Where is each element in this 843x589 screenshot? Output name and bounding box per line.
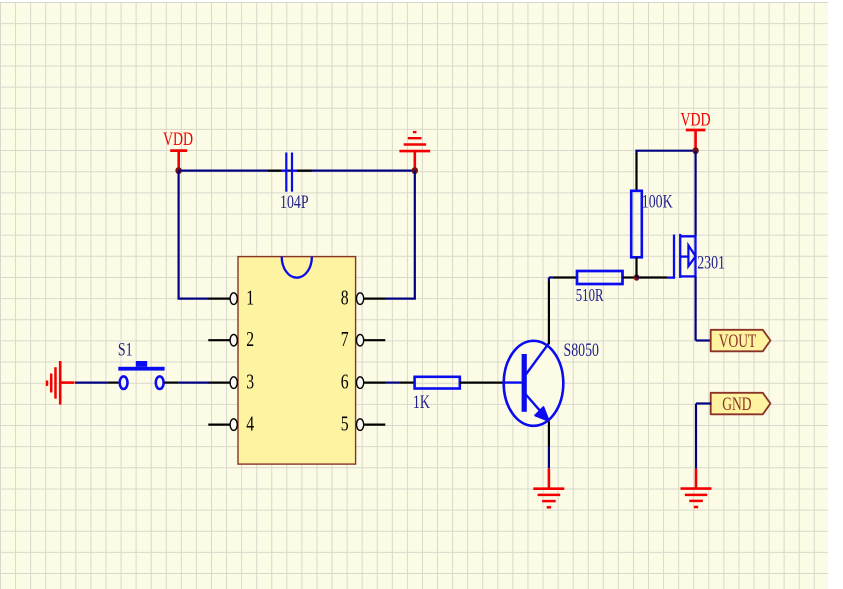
transistor Q1 S8050 (504, 341, 564, 426)
ground (earth, left of S1) (47, 361, 75, 405)
svg-text:VOUT: VOUT (719, 331, 757, 352)
pin number 3 (246, 370, 254, 394)
port GND (711, 393, 771, 415)
pin 1 (208, 293, 237, 305)
svg-text:GND: GND (722, 394, 752, 415)
port VOUT (711, 330, 771, 352)
capacitor C1 104P (268, 153, 312, 192)
power port VDD (right) (680, 108, 710, 150)
power ground (earth, top right) (399, 132, 430, 171)
wire (VDD to 100K) (635, 150, 695, 152)
wire (collector to R 510R) (549, 278, 577, 345)
svg-text:104P: 104P (280, 191, 309, 213)
IC U1 body (238, 257, 356, 465)
svg-text:S8050: S8050 (564, 339, 599, 361)
resistor 1K (415, 377, 504, 389)
svg-text:4: 4 (246, 412, 254, 436)
svg-text:5: 5 (341, 412, 349, 436)
value label 510R (576, 286, 604, 305)
wire (emitter to ground) (548, 422, 550, 469)
wire (GND flag to ground) (696, 404, 712, 469)
svg-text:1K: 1K (413, 391, 430, 413)
designator 2301 (697, 251, 725, 273)
svg-text:7: 7 (341, 328, 349, 352)
wire (pin 6 to R 1K) (385, 382, 415, 384)
value label 104P (280, 191, 309, 213)
wire (source to VOUT) (696, 276, 712, 340)
svg-text:510R: 510R (576, 286, 604, 305)
pin 2 (208, 334, 237, 346)
pin 5 (357, 419, 386, 431)
wire (drain) (694, 151, 696, 237)
resistor 100K (631, 151, 642, 278)
wire (right vertical to pin 8) (385, 171, 416, 299)
pin number 1 (246, 286, 254, 310)
svg-text:VDD: VDD (680, 108, 710, 130)
value label 100K (642, 190, 673, 212)
svg-text:6: 6 (341, 370, 349, 394)
junction dot (VDD right) (692, 147, 698, 154)
svg-text:2: 2 (246, 328, 254, 352)
pin number 8 (341, 286, 349, 310)
wire (ground to S1) (75, 382, 107, 384)
pin number 7 (341, 328, 349, 352)
svg-text:S1: S1 (118, 338, 133, 360)
wire (gate node to Q2) (637, 276, 667, 278)
power port VDD (left) (163, 128, 193, 171)
wire (VDD to earth, top) (179, 170, 415, 172)
junction dot (earth top) (412, 167, 418, 174)
pin number 5 (341, 412, 349, 436)
pin number 4 (246, 412, 254, 436)
wire (S1 to pin 3) (178, 382, 208, 384)
svg-text:2301: 2301 (697, 251, 725, 273)
pin 8 (357, 293, 386, 305)
ground (earth, below Q1) (533, 469, 564, 508)
value label 1K (413, 391, 430, 413)
pin number 6 (341, 370, 349, 394)
pin number 2 (246, 328, 254, 352)
svg-text:1: 1 (246, 286, 254, 310)
switch S1 (107, 361, 178, 389)
resistor 510R (577, 271, 637, 284)
junction dot (VDD left) (175, 167, 181, 174)
pin 4 (208, 419, 237, 431)
pin 3 (208, 377, 237, 389)
svg-text:100K: 100K (642, 190, 673, 212)
pin 7 (357, 334, 386, 346)
ground (earth, bottom right) (681, 469, 712, 507)
wire (left vertical to pin 1) (178, 171, 209, 299)
designator S1 (118, 338, 133, 360)
designator S8050 (564, 339, 599, 361)
junction dot (gate node) (634, 274, 640, 280)
svg-text:3: 3 (246, 370, 254, 394)
mosfet Q2 2301 (667, 234, 696, 279)
svg-text:VDD: VDD (163, 128, 193, 150)
svg-text:8: 8 (341, 286, 349, 310)
pin 6 (357, 377, 386, 389)
